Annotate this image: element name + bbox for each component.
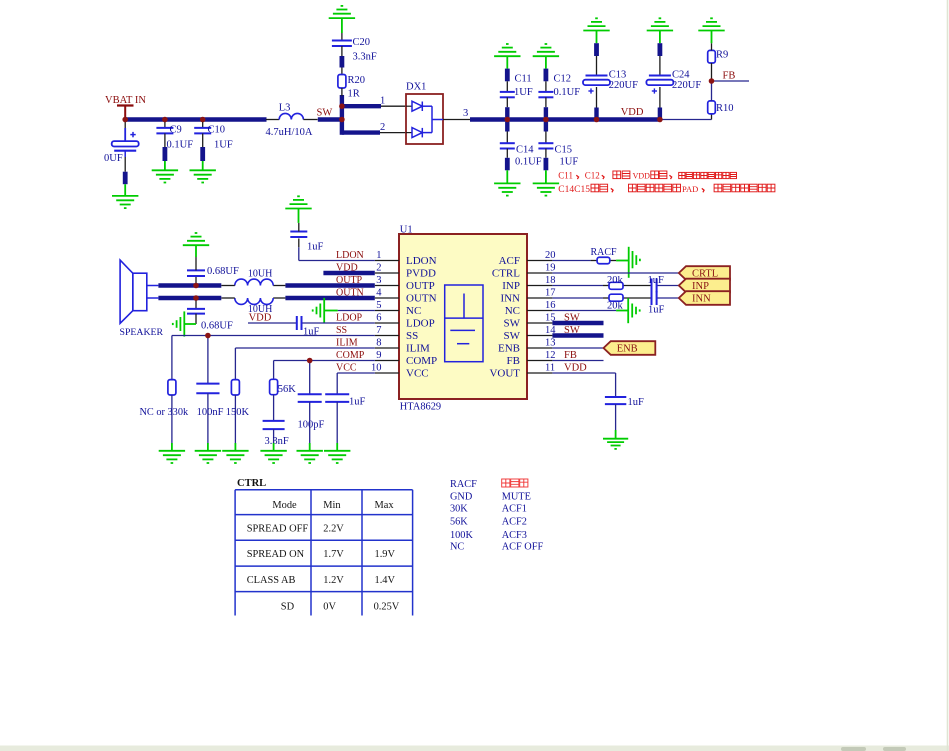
svg-text:R10: R10 (716, 103, 734, 114)
svg-text:SPREAD ON: SPREAD ON (247, 549, 305, 560)
svg-text:CTRL: CTRL (492, 268, 520, 280)
resistor 150K (226, 380, 250, 443)
capacitor 1uF at LDOP (297, 316, 320, 338)
svg-text:1.9V: 1.9V (375, 549, 396, 560)
junction SS at 100nF (205, 333, 211, 339)
speaker SPEAKER (120, 260, 164, 338)
svg-text:CLASS AB: CLASS AB (247, 575, 296, 586)
table CTRL text (247, 500, 400, 613)
wire COMP pin 9 (274, 361, 399, 380)
power flag VBAT IN (105, 95, 146, 120)
inductor 10UH upper (235, 268, 273, 285)
svg-text:0UF: 0UF (104, 153, 123, 164)
svg-text:1: 1 (376, 250, 381, 261)
ground below bulk cap (112, 184, 138, 208)
capacitor 1uF at VCC (325, 394, 365, 443)
wire VOUT pin 11 (527, 373, 616, 397)
wire SW pin 14 (527, 335, 604, 337)
svg-text:1.4V: 1.4V (375, 575, 396, 586)
U1 right pin numbers (545, 250, 556, 374)
junction VDD bus at C24 (657, 117, 663, 123)
junction on VBAT bus at bulk cap (122, 117, 128, 123)
svg-text:ILIM: ILIM (406, 343, 430, 355)
annotation red line 1 (558, 171, 736, 181)
svg-text:5: 5 (376, 300, 381, 311)
U1 right pin names (489, 255, 520, 380)
svg-text:20: 20 (545, 250, 556, 261)
ground below VOUT 1uF (603, 430, 628, 449)
port flag INP (679, 279, 730, 293)
svg-text:Min: Min (323, 500, 341, 511)
ground above C13 (583, 18, 609, 43)
svg-text:C15: C15 (555, 145, 573, 156)
table CTRL grid (235, 490, 413, 616)
svg-text:C11: C11 (515, 74, 532, 85)
svg-text:1: 1 (380, 96, 385, 107)
wire LDON pin 1 (299, 247, 399, 260)
junction OUTN at 0.68UF (193, 295, 199, 301)
capacitor 1uF at LDON (290, 223, 323, 253)
svg-text:FB: FB (564, 350, 577, 361)
svg-text:SW: SW (317, 108, 333, 119)
capacitor bulk electrolytic 0UF (104, 120, 139, 185)
svg-text:DX1: DX1 (406, 82, 426, 93)
svg-text:C20: C20 (353, 37, 371, 48)
wire FB pin 12 (527, 360, 604, 362)
svg-text:C12: C12 (554, 74, 572, 85)
svg-text:HTA8629: HTA8629 (400, 401, 441, 412)
U1 left net labels (336, 250, 365, 374)
svg-text:PAD: PAD (682, 184, 698, 194)
svg-text:VDD: VDD (249, 313, 272, 324)
junction on VBAT bus at C10 (200, 117, 206, 123)
svg-text:0.1UF: 0.1UF (167, 140, 194, 151)
wire DX1 pin 3 to VDD bus (443, 119, 660, 121)
svg-text:SS: SS (406, 330, 418, 342)
capacitor C12 0.1UF (538, 69, 580, 118)
wire SS pin 7 (172, 336, 399, 380)
junction VDD bus at C11 (505, 117, 511, 123)
svg-text:17: 17 (545, 287, 556, 298)
svg-text:RACF: RACF (450, 479, 477, 490)
svg-text:C11: C11 (558, 171, 573, 181)
svg-text:VOUT: VOUT (489, 368, 520, 380)
svg-text:100nF: 100nF (197, 407, 224, 418)
svg-text:SW: SW (504, 318, 521, 330)
U1 left pin names (406, 255, 437, 380)
svg-text:1UF: 1UF (514, 87, 533, 98)
ground below C9 (152, 161, 178, 183)
svg-text:SD: SD (281, 601, 295, 612)
svg-text:MUTE: MUTE (502, 492, 531, 503)
svg-text:C10: C10 (208, 125, 226, 136)
wire PVDD pin 2 (323, 272, 399, 274)
svg-text:7: 7 (376, 325, 381, 336)
capacitor 1uF at INN (648, 291, 665, 316)
svg-text:U1: U1 (400, 225, 413, 236)
svg-text:FB: FB (723, 71, 736, 82)
svg-text:SS: SS (336, 325, 347, 336)
svg-text:1uF: 1uF (648, 305, 665, 316)
svg-text:1.7V: 1.7V (323, 549, 344, 560)
wire SW pin 15 (527, 322, 604, 324)
ground at pin 5 (313, 298, 338, 323)
svg-text:LDOP: LDOP (406, 318, 435, 330)
svg-text:16: 16 (545, 300, 556, 311)
node FB junction (709, 78, 715, 84)
svg-text:12: 12 (545, 350, 556, 361)
svg-text:VDD: VDD (564, 363, 587, 374)
svg-text:ENB: ENB (617, 344, 638, 355)
capacitor 1uF at VOUT (605, 397, 644, 430)
svg-text:R9: R9 (716, 50, 728, 61)
resistor 56K (270, 379, 297, 421)
ground above C20 (329, 6, 355, 33)
svg-text:CTRL: CTRL (237, 478, 266, 489)
svg-text:2: 2 (376, 262, 381, 273)
junction on VBAT bus at C9 (162, 117, 168, 123)
svg-text:0.68UF: 0.68UF (201, 321, 233, 332)
wire NC pin 5 (338, 310, 399, 312)
annotation red line 2 (558, 184, 775, 195)
port flag CRTL (679, 266, 730, 280)
capacitor C9 0.1UF (156, 120, 193, 162)
svg-text:1uF: 1uF (628, 397, 645, 408)
svg-text:ACF OFF: ACF OFF (502, 542, 544, 553)
wire VCC pin 10 (337, 373, 399, 394)
U1 inner symbol (445, 285, 483, 362)
U1 left pin numbers (371, 250, 382, 374)
legend RACF list (450, 479, 543, 553)
junction VDD bus at C13 (594, 117, 600, 123)
svg-text:C13: C13 (609, 70, 627, 81)
svg-text:Max: Max (375, 500, 395, 511)
wire CTRL pin 19 (527, 272, 679, 274)
ground below 100pF (297, 443, 323, 463)
wire INP pin 18 (527, 285, 679, 287)
svg-text:OUTN: OUTN (406, 293, 437, 305)
svg-text:3.3nF: 3.3nF (353, 52, 377, 63)
junction COMP at 100pF (307, 358, 313, 364)
svg-text:100pF: 100pF (298, 420, 325, 431)
svg-text:C14C15: C14C15 (558, 185, 590, 195)
port flag ENB (604, 341, 656, 355)
ground above upper 0.68UF (183, 233, 209, 257)
svg-text:LDON: LDON (406, 255, 437, 267)
ground right of RACF (629, 247, 640, 278)
svg-text:LDOP: LDOP (336, 312, 363, 323)
junction VDD bus at C12 (543, 117, 549, 123)
capacitor 3.3nF (263, 421, 289, 447)
ground at pin 16 (616, 298, 640, 323)
capacitor 0.68UF lower (187, 298, 233, 332)
resistor RACF (591, 247, 618, 264)
svg-text:0.1UF: 0.1UF (515, 157, 542, 168)
legend red label (502, 479, 528, 487)
svg-text:VCC: VCC (406, 368, 429, 380)
capacitor C14 0.1UF (500, 122, 542, 171)
svg-text:SPREAD OFF: SPREAD OFF (247, 524, 309, 535)
svg-text:NC or 330k: NC or 330k (140, 407, 189, 418)
svg-text:2: 2 (380, 122, 385, 133)
wire ENB pin 13 (527, 347, 604, 349)
svg-text:PVDD: PVDD (406, 268, 436, 280)
capacitor 0.68UF upper (187, 257, 239, 286)
wire OUTN pin 4 (273, 297, 399, 299)
svg-text:C9: C9 (170, 125, 182, 136)
ground below C10 (190, 161, 216, 183)
svg-text:COMP: COMP (336, 350, 365, 361)
wire speaker to 10UH upper (158, 285, 234, 287)
wire INN pin 17 (527, 297, 679, 299)
port flag INN (679, 291, 730, 305)
svg-text:1R: 1R (348, 89, 360, 100)
capacitor C15 1UF (538, 122, 578, 171)
svg-text:18: 18 (545, 275, 556, 286)
svg-text:INN: INN (692, 294, 711, 305)
svg-text:100K: 100K (450, 530, 473, 541)
svg-text:0.1UF: 0.1UF (554, 87, 581, 98)
wire NC pin 16 (527, 310, 616, 312)
wire VBAT bus (125, 117, 266, 121)
junction SW at bus (339, 117, 345, 123)
resistor R9 (708, 43, 729, 81)
ground below NC or 330k resistor (159, 443, 185, 463)
svg-text:ACF2: ACF2 (502, 517, 527, 528)
svg-text:4.7uH/10A: 4.7uH/10A (266, 127, 313, 138)
svg-text:220UF: 220UF (609, 80, 638, 91)
ground above LDON 1uF cap (285, 196, 311, 223)
capacitor 100nF (196, 336, 223, 444)
svg-text:C14: C14 (516, 145, 534, 156)
svg-text:R20: R20 (348, 75, 366, 86)
svg-text:NC: NC (505, 305, 520, 317)
wire LDOP pin 6 (248, 322, 399, 324)
junction SW at pin1 branch (339, 103, 345, 109)
svg-text:0.68UF: 0.68UF (207, 266, 239, 277)
svg-text:1uF: 1uF (648, 275, 665, 286)
svg-text:3: 3 (463, 108, 468, 119)
svg-text:ILIM: ILIM (336, 337, 358, 348)
ground below C15 (533, 170, 559, 195)
wire VDD to R10 (660, 114, 712, 120)
svg-text:VDD: VDD (621, 107, 644, 118)
svg-text:VBAT IN: VBAT IN (105, 95, 146, 106)
svg-text:FB: FB (507, 355, 520, 367)
ground above C11 (494, 44, 520, 69)
svg-text:ACF3: ACF3 (502, 530, 527, 541)
capacitor 100pF (298, 361, 325, 444)
svg-text:SPEAKER: SPEAKER (120, 327, 164, 338)
wire SW to DX1 pin 2 (342, 130, 406, 134)
resistor R10 (708, 81, 734, 114)
svg-text:RACF: RACF (591, 247, 618, 258)
capacitor C24 220UF (646, 43, 701, 119)
svg-text:19: 19 (545, 262, 556, 273)
svg-text:4: 4 (376, 287, 382, 298)
op-amp U1 HTA8629 body (399, 225, 527, 413)
svg-text:Mode: Mode (272, 500, 297, 511)
window right edge (947, 0, 949, 751)
ground above C24 (647, 18, 673, 43)
ground left of lower 0.68UF (173, 311, 196, 336)
svg-text:LDON: LDON (336, 250, 364, 261)
ground above C12 (533, 44, 559, 69)
svg-text:30K: 30K (450, 504, 468, 515)
inductor L3 4.7uH/10A (266, 103, 318, 138)
scrollbar bottom (0, 746, 949, 751)
svg-text:VDD: VDD (633, 172, 651, 181)
svg-text:SW: SW (564, 325, 580, 336)
svg-text:8: 8 (376, 337, 381, 348)
svg-text:VCC: VCC (336, 362, 357, 373)
svg-text:NC: NC (450, 542, 464, 553)
net label FB and wire (712, 71, 750, 82)
svg-text:10UH: 10UH (248, 268, 272, 279)
svg-text:56K: 56K (450, 517, 468, 528)
svg-text:1uF: 1uF (307, 242, 324, 253)
svg-text:3.3nF: 3.3nF (265, 436, 289, 447)
svg-text:11: 11 (545, 362, 555, 373)
svg-text:2.2V: 2.2V (323, 524, 344, 535)
svg-text:INN: INN (500, 293, 520, 305)
svg-text:20k: 20k (607, 275, 624, 286)
svg-text:3: 3 (376, 275, 381, 286)
svg-text:1uF: 1uF (349, 397, 366, 408)
svg-text:GND: GND (450, 492, 473, 503)
svg-text:6: 6 (376, 312, 381, 323)
ground above R9 (698, 18, 724, 43)
resistor R20 1R (338, 75, 365, 100)
svg-text:COMP: COMP (406, 355, 437, 367)
capacitor C10 1UF (194, 120, 233, 162)
svg-text:ACF: ACF (499, 255, 520, 267)
svg-text:1UF: 1UF (560, 157, 579, 168)
svg-text:ACF1: ACF1 (502, 504, 527, 515)
svg-text:C24: C24 (672, 70, 690, 81)
ground below 150K (222, 443, 248, 463)
wire SW to DX1 pin 1 (342, 104, 406, 108)
svg-text:ENB: ENB (498, 343, 520, 355)
resistor NC or 330k (140, 380, 189, 443)
svg-text:NC: NC (406, 305, 421, 317)
svg-text:10: 10 (371, 362, 382, 373)
svg-text:13: 13 (545, 337, 556, 348)
diode pair DX1 (406, 82, 443, 145)
wire speaker to 10UH lower (158, 297, 234, 299)
svg-text:1UF: 1UF (214, 140, 233, 151)
svg-text:56K: 56K (278, 384, 297, 395)
resistor 20k at INN (607, 294, 624, 312)
ground below 3.3nF (260, 443, 286, 463)
svg-text:INP: INP (502, 280, 520, 292)
svg-text:SW: SW (504, 330, 521, 342)
svg-text:1.2V: 1.2V (323, 575, 344, 586)
svg-text:C12: C12 (585, 171, 600, 181)
wire SW node (318, 95, 342, 135)
capacitor C11 1UF (500, 69, 533, 118)
capacitor C13 220UF (583, 43, 638, 119)
svg-text:150K: 150K (226, 407, 250, 418)
resistor 20k at INP (607, 275, 624, 289)
svg-text:9: 9 (376, 350, 381, 361)
capacitor 1uF at INP (648, 275, 665, 293)
wire OUTP pin 3 (273, 285, 399, 287)
wire ACF pin 20 (527, 260, 629, 262)
svg-text:OUTP: OUTP (406, 280, 435, 292)
svg-text:220UF: 220UF (672, 80, 701, 91)
capacitor C20 3.3nF (332, 33, 377, 75)
svg-text:SW: SW (564, 312, 580, 323)
ground below C14 (494, 170, 520, 195)
junction OUTP at 0.68UF (193, 283, 199, 289)
svg-text:0V: 0V (323, 601, 336, 612)
wire ILIM pin 8 (235, 348, 399, 380)
ground below VCC 1uF (324, 443, 350, 463)
svg-text:L3: L3 (279, 103, 291, 114)
inductor 10UH lower (235, 298, 273, 315)
svg-text:0.25V: 0.25V (374, 601, 400, 612)
ground below 100nF (195, 443, 221, 463)
